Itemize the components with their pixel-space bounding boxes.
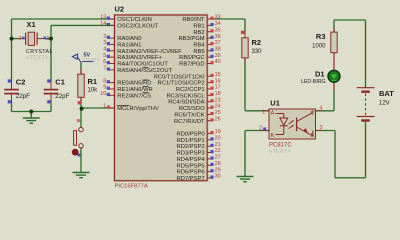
svg-text:<TEXT>: <TEXT> bbox=[269, 149, 291, 155]
svg-text:29: 29 bbox=[215, 167, 221, 173]
svg-text:28: 28 bbox=[215, 161, 221, 167]
svg-text:33: 33 bbox=[215, 15, 221, 21]
svg-text:RA0/AN0: RA0/AN0 bbox=[117, 36, 141, 42]
svg-text:22pF: 22pF bbox=[55, 93, 69, 100]
svg-text:RA4/T0CKI/C1OUT: RA4/T0CKI/C1OUT bbox=[117, 62, 168, 68]
svg-text:R1: R1 bbox=[88, 77, 98, 86]
svg-text:24: 24 bbox=[215, 104, 221, 110]
svg-text:1: 1 bbox=[47, 36, 50, 42]
svg-text:18: 18 bbox=[215, 91, 221, 97]
svg-text:RE2/AN7/CS: RE2/AN7/CS bbox=[117, 93, 151, 99]
svg-text:35: 35 bbox=[215, 27, 221, 33]
svg-text:R2: R2 bbox=[252, 38, 262, 47]
svg-text:RA5/AN4/SS/C2OUT: RA5/AN4/SS/C2OUT bbox=[117, 68, 172, 74]
svg-text:26: 26 bbox=[215, 116, 221, 122]
svg-text:3: 3 bbox=[320, 125, 323, 131]
svg-text:RD6/PSP6: RD6/PSP6 bbox=[177, 170, 205, 176]
svg-text:RD7/PSP7: RD7/PSP7 bbox=[177, 176, 205, 182]
svg-text:2: 2 bbox=[18, 36, 21, 42]
svg-text:U2: U2 bbox=[115, 4, 125, 13]
svg-text:OSC1/CLKIN: OSC1/CLKIN bbox=[117, 17, 151, 23]
svg-text:27: 27 bbox=[215, 155, 221, 161]
svg-text:6: 6 bbox=[103, 59, 106, 65]
svg-text:5: 5 bbox=[103, 53, 106, 59]
svg-text:RC6/TX/CK: RC6/TX/CK bbox=[174, 112, 204, 118]
svg-text:16: 16 bbox=[215, 78, 221, 84]
svg-text:13: 13 bbox=[100, 15, 106, 21]
svg-text:37: 37 bbox=[215, 40, 221, 46]
svg-text:34: 34 bbox=[215, 21, 221, 27]
svg-text:21: 21 bbox=[215, 142, 221, 148]
svg-text:RB5: RB5 bbox=[193, 49, 204, 55]
svg-text:22pF: 22pF bbox=[16, 93, 30, 100]
svg-text:RE0/AN5/RD: RE0/AN5/RD bbox=[117, 81, 151, 87]
svg-text:14: 14 bbox=[100, 21, 106, 27]
svg-text:RA1/AN1: RA1/AN1 bbox=[117, 43, 141, 49]
svg-text:39: 39 bbox=[215, 53, 221, 59]
svg-text:19: 19 bbox=[215, 129, 221, 135]
svg-text:40: 40 bbox=[215, 59, 221, 65]
svg-text:330: 330 bbox=[252, 49, 263, 55]
svg-text:RC3/SCK/SCL: RC3/SCK/SCL bbox=[167, 93, 206, 99]
svg-text:RD1/PSP1: RD1/PSP1 bbox=[177, 138, 205, 144]
svg-text:RA2/AN2/VREF-/CVREF: RA2/AN2/VREF-/CVREF bbox=[117, 49, 182, 55]
svg-text:25: 25 bbox=[215, 110, 221, 116]
svg-text:RD4/PSP4: RD4/PSP4 bbox=[177, 157, 206, 163]
svg-text:PC817C: PC817C bbox=[269, 143, 292, 149]
svg-text:2: 2 bbox=[103, 34, 106, 40]
svg-text:3: 3 bbox=[103, 40, 106, 46]
svg-text:4: 4 bbox=[103, 46, 106, 52]
svg-text:RA3/AN3/VREF+: RA3/AN3/VREF+ bbox=[117, 55, 162, 61]
svg-text:38: 38 bbox=[215, 46, 221, 52]
svg-text:4: 4 bbox=[320, 105, 323, 111]
svg-text:RD0/PSP0: RD0/PSP0 bbox=[177, 132, 205, 138]
svg-text:A: A bbox=[271, 111, 275, 117]
svg-text:23: 23 bbox=[215, 97, 221, 103]
svg-text:RB0/INT: RB0/INT bbox=[182, 17, 205, 23]
svg-text:D1: D1 bbox=[315, 69, 325, 78]
svg-text:MCLR/Vpp/THV: MCLR/Vpp/THV bbox=[117, 106, 159, 112]
svg-text:K: K bbox=[271, 133, 275, 139]
svg-text:22: 22 bbox=[215, 148, 221, 154]
svg-text:RD3/PSP3: RD3/PSP3 bbox=[177, 151, 205, 157]
svg-text:12V: 12V bbox=[379, 100, 390, 106]
svg-text:RB7/PGD: RB7/PGD bbox=[179, 62, 204, 68]
svg-text:C1: C1 bbox=[55, 78, 65, 87]
svg-text:RB4: RB4 bbox=[193, 43, 205, 49]
svg-text:RB6/PGC: RB6/PGC bbox=[179, 55, 204, 61]
svg-text:8: 8 bbox=[103, 78, 106, 84]
svg-text:RD2/PSP2: RD2/PSP2 bbox=[177, 144, 205, 150]
svg-text:10k: 10k bbox=[88, 87, 99, 93]
svg-text:30: 30 bbox=[215, 174, 221, 180]
svg-text:<TEXT>: <TEXT> bbox=[26, 55, 49, 61]
svg-text:C2: C2 bbox=[16, 78, 26, 87]
svg-text:RB2: RB2 bbox=[193, 30, 204, 36]
svg-text:RB3/PGM: RB3/PGM bbox=[179, 36, 205, 42]
svg-text:OSC2/CLKOUT: OSC2/CLKOUT bbox=[117, 23, 158, 29]
svg-text:R3: R3 bbox=[316, 32, 326, 41]
svg-text:CRYSTAL: CRYSTAL bbox=[26, 49, 53, 55]
svg-text:RB1: RB1 bbox=[193, 23, 204, 29]
svg-text:PIC16F877A: PIC16F877A bbox=[115, 183, 148, 189]
svg-text:1: 1 bbox=[103, 104, 106, 110]
svg-text:RC4/SDI/SDA: RC4/SDI/SDA bbox=[168, 100, 205, 106]
svg-text:BAT: BAT bbox=[379, 89, 394, 98]
svg-text:9: 9 bbox=[103, 85, 106, 91]
svg-text:1: 1 bbox=[262, 109, 265, 115]
svg-text:RD5/PSP5: RD5/PSP5 bbox=[177, 163, 205, 169]
svg-text:U1: U1 bbox=[270, 99, 280, 108]
svg-text:RC1/T1OSI/CCP2: RC1/T1OSI/CCP2 bbox=[158, 81, 205, 87]
svg-text:RC0/T1OSO/T1CKI: RC0/T1OSO/T1CKI bbox=[154, 74, 205, 80]
svg-text:15: 15 bbox=[215, 72, 221, 78]
svg-text:7: 7 bbox=[103, 66, 106, 72]
svg-text:RE1/AN6/WR: RE1/AN6/WR bbox=[117, 87, 152, 93]
svg-text:RC2/CCP1: RC2/CCP1 bbox=[176, 87, 205, 93]
svg-text:10: 10 bbox=[100, 91, 106, 97]
svg-text:X1: X1 bbox=[27, 20, 36, 29]
svg-text:LED-BIRG: LED-BIRG bbox=[301, 79, 326, 85]
svg-text:1000: 1000 bbox=[312, 43, 326, 49]
svg-text:2: 2 bbox=[259, 125, 262, 131]
svg-text:RC5/SDO: RC5/SDO bbox=[179, 106, 205, 112]
svg-text:RC7/RX/DT: RC7/RX/DT bbox=[174, 119, 205, 125]
svg-text:17: 17 bbox=[215, 85, 221, 91]
svg-text:36: 36 bbox=[215, 34, 221, 40]
svg-text:20: 20 bbox=[215, 135, 221, 141]
